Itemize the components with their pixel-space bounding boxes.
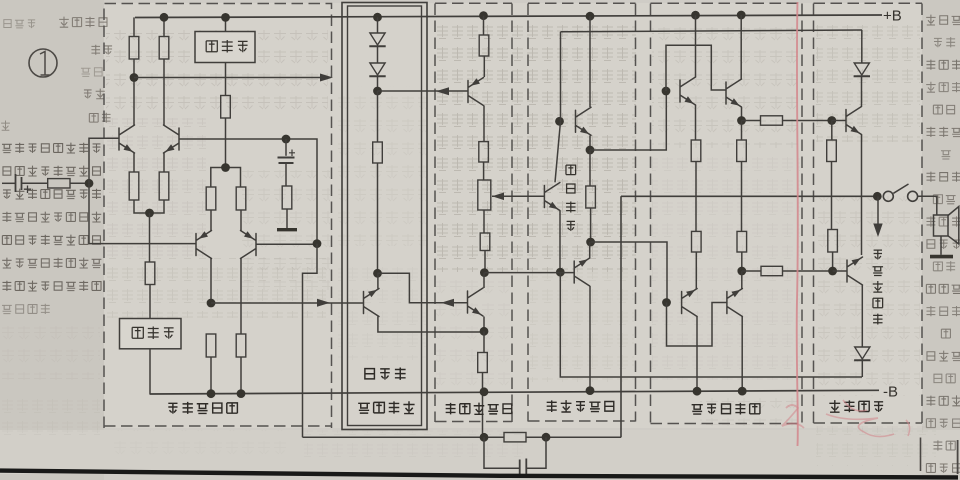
wire Q6p collector to -B: [741, 317, 743, 392]
wire feedback tap: [620, 196, 622, 437]
node input split: [85, 179, 94, 188]
red annotation line: [797, 2, 798, 446]
transistor Q5 (driver upper): [680, 77, 696, 105]
resistor R10 (Q3 collector load): [206, 334, 216, 357]
ground (bypass branch): [277, 228, 297, 231]
wire D2 to node: [377, 77, 379, 92]
wire node to Q6p emitter: [741, 271, 743, 289]
label: overcurrent protection: [829, 400, 883, 412]
wire Q5 emitter to R19: [695, 105, 697, 140]
wire Q8 collector to D3: [861, 77, 863, 107]
transistor Q8 (protection upper): [846, 107, 862, 135]
stage box: power output stage (dashed): [651, 3, 803, 422]
transistor Q6p (output lower): [727, 289, 743, 317]
wire rail to R14: [483, 16, 485, 35]
label: constant voltage bias (vertical): [566, 165, 576, 231]
wire rail to top current source: [225, 17, 227, 31]
margin text row: [89, 113, 110, 123]
wire switch to speaker: [918, 196, 937, 215]
wire to R24: [742, 270, 761, 272]
margin text row: [84, 89, 105, 99]
margin text row: [933, 440, 955, 450]
node T9 emitter: [373, 269, 382, 278]
resistor R24 (sense lower): [761, 266, 783, 275]
resistor R27: [828, 230, 838, 253]
wire R8 to Q3 emitter: [210, 210, 212, 231]
node rail Q6: [737, 11, 746, 20]
wire R2 to Q1 collector: [133, 59, 135, 125]
resistor R23 (sense upper): [761, 116, 783, 125]
transistor T12 (current amp upper): [576, 107, 592, 135]
label: boost circuit (line2): [358, 401, 414, 414]
speaker LS: [934, 215, 949, 236]
margin text row: [927, 351, 960, 362]
wire +B rail: [135, 15, 882, 18]
wire D3 to top bias line: [861, 30, 863, 63]
wire R14 to T10 emitter: [483, 56, 485, 77]
wire C3 right to node: [526, 437, 546, 468]
wire current source to R7: [225, 63, 227, 96]
label: voltage amplification stage: [446, 403, 512, 415]
wire current source to -B: [149, 349, 151, 394]
wire rail to Q6 collector: [740, 15, 742, 79]
margin text row: [926, 464, 960, 473]
wire rail to R2: [133, 17, 135, 36]
node rail VAS: [479, 11, 488, 20]
wire TB1 emitter down: [559, 211, 561, 273]
svg-text:+B: +B: [883, 8, 902, 25]
resistor R22: [737, 231, 747, 252]
transistor TB1 (bias upper): [544, 183, 560, 211]
node VAS midpoint: [480, 268, 489, 277]
node rail in boost box: [373, 13, 382, 22]
wire rail to R3: [163, 17, 165, 36]
resistor R21: [692, 231, 702, 252]
margin text row: [926, 172, 960, 182]
wire input: [2, 182, 15, 184]
margin text row: [3, 189, 101, 200]
arrowhead toward boost box (lower): [441, 299, 454, 307]
margin text row: [926, 306, 960, 316]
wire bias to T10 base: [378, 90, 468, 92]
node Q3 collector tap: [207, 299, 216, 308]
svg-text:-B: -B: [883, 384, 898, 401]
margin text row: [933, 105, 954, 114]
wire Q6 emitter: [741, 107, 743, 121]
label: single diff (line1): [365, 367, 406, 379]
node output: [873, 192, 882, 201]
node Q5p base: [662, 298, 671, 307]
wire Q2 base to feedback node: [179, 139, 317, 244]
resistor R6 (tail): [145, 262, 155, 285]
node rail-R3: [160, 13, 169, 22]
transistor T10 (VAS upper): [468, 78, 484, 106]
resistor R9 (Q4 emitter): [236, 187, 246, 210]
node TB2 -B: [586, 386, 595, 395]
resistor R25 (feedback): [504, 433, 526, 442]
margin text row: [2, 281, 101, 292]
wire tail to R6: [149, 213, 151, 262]
wire rail to T12 collector: [589, 16, 591, 107]
resistor R3 (Q2 collector load): [159, 37, 169, 60]
stage box: current amplification stage (dashed): [528, 3, 636, 421]
node Q6p emitter: [737, 267, 746, 276]
stage box: voltage amplification stage (dashed): [435, 3, 512, 422]
margin text row: [59, 17, 107, 28]
wire R11 to -B: [240, 357, 242, 394]
resistor R12 (bypass): [282, 186, 292, 209]
wire T9 node jog to T11 base: [378, 273, 468, 302]
transistor Q5p (driver lower): [682, 289, 698, 317]
diode D1: [370, 33, 385, 45]
label: speaker protection (vertical): [873, 250, 884, 324]
wire arrow stem: [877, 196, 879, 224]
wire emitter join: [134, 200, 164, 213]
wire TB2 collector up: [589, 242, 591, 258]
wire TB2 emitter to -B: [589, 286, 591, 391]
margin text row: [941, 151, 951, 159]
page rule (below figure, right): [957, 440, 959, 474]
figure number (1) circled: [29, 49, 57, 77]
node rail current-amp: [586, 12, 595, 21]
resistor R15: [479, 142, 489, 162]
wire node to R17: [483, 331, 485, 352]
wire to Q8 base bar: [832, 120, 846, 122]
wire C1 to R1: [22, 182, 48, 184]
page rule (below figure, left): [920, 438, 922, 472]
wire R9 to Q4 emitter: [240, 210, 242, 231]
resistor R17 (VAS lower load): [478, 353, 488, 373]
wire R20 to R22 (crosses output rail): [741, 162, 743, 232]
margin text row: [2, 143, 100, 154]
trimmer RP1 (bias adjust): [478, 180, 491, 210]
margin text row: [2, 304, 50, 314]
margin text row: [926, 419, 960, 428]
margin text row: [1, 121, 10, 131]
margin text row: [926, 15, 960, 26]
margin text row: [91, 45, 112, 55]
node T11 emitter: [480, 327, 489, 336]
wire base coupling lower: [667, 303, 727, 347]
wire C2 to R12: [285, 164, 287, 187]
node feedback right: [542, 433, 551, 442]
arrowhead trimmer wiper: [492, 193, 504, 201]
margin text row: [3, 166, 100, 177]
resistor R7 (pair B tail): [221, 96, 231, 119]
resistor R5 (Q2 emitter): [159, 172, 169, 200]
capacitor C2 (electrolytic bypass): [278, 158, 295, 164]
wire R21 to Q5p emitter: [695, 252, 697, 289]
wire R26 down (crosses output rail): [831, 162, 833, 230]
wire T11 emitter down: [483, 317, 485, 332]
switch S1: [883, 191, 893, 201]
transistor TB2 (bias lower): [574, 258, 590, 286]
node rail Q5: [691, 11, 700, 20]
margin text row: [2, 258, 101, 269]
wire R27 to node: [832, 252, 834, 271]
wire rail to Q5 collector: [695, 15, 697, 77]
resistor R11 (Q4 collector load): [236, 334, 246, 357]
wire R22 to node: [741, 252, 743, 271]
wire node to TB1 collector: [555, 121, 561, 182]
diode D3 (upper clamp): [854, 63, 869, 75]
arrowhead toward boost box (upper): [436, 87, 449, 95]
node R11 -B: [237, 389, 246, 398]
capacitor C1 (input, polarized): [16, 174, 22, 192]
wire protection sense line: [560, 272, 862, 377]
wire rail to D1: [377, 17, 379, 32]
wire R19 to R21 (crosses output rail): [695, 162, 697, 232]
wire signal to boost box: [134, 77, 320, 79]
margin text row: [2, 235, 100, 246]
resistor R13 (boost): [373, 142, 383, 163]
label: power output stage: [692, 403, 760, 415]
wire node to R13: [377, 91, 379, 142]
wire to Q9 base bar: [833, 270, 847, 272]
node bias join: [556, 268, 565, 277]
background bleed text (figure interior): [106, 30, 328, 114]
node pair B tail: [221, 163, 230, 172]
wire to Q5 base: [590, 91, 666, 150]
wire to Q3 base: [89, 183, 196, 243]
node mid bias: [586, 238, 595, 247]
margin text row: [926, 60, 960, 70]
label: differential input stage: [168, 402, 237, 414]
label: constant current source (bottom box): [132, 326, 173, 339]
wire signal to boost transistor base: [211, 302, 364, 304]
node pair A tail: [145, 209, 154, 218]
margin text row: [926, 216, 960, 226]
wire R1 to node: [70, 182, 89, 184]
margin text row: [926, 82, 960, 93]
node R10 -B: [207, 389, 216, 398]
node feedback join: [313, 239, 322, 248]
wire Q6 emitter to R20: [741, 121, 743, 141]
wire Q9 emitter to D4: [861, 285, 863, 347]
wire R15 to RP1: [483, 162, 485, 180]
wire to Q7p base: [591, 242, 667, 301]
wire VAS mid to TB2 base: [484, 272, 574, 274]
wire -B rail: [150, 390, 880, 394]
wire node to R26: [831, 121, 833, 141]
wire speaker to ground: [940, 236, 942, 255]
node Q8 base: [827, 116, 836, 125]
margin text row: [926, 395, 960, 406]
wire D4 to sense line: [861, 361, 863, 378]
wire R24 to Q9 base node: [783, 270, 833, 272]
margin text row: [81, 68, 102, 77]
wire Q2 emitter: [163, 153, 165, 172]
box U1: single-diff boost circuit (double border): [342, 3, 427, 430]
node Q6 emitter: [737, 116, 746, 125]
node Q6p -B: [738, 387, 747, 396]
wire T12 emitter down: [589, 136, 591, 151]
constant current source box (top): [195, 32, 255, 63]
margin text row: [933, 261, 955, 271]
wire R16 to VAS mid node: [484, 251, 486, 273]
margin text row: [941, 329, 950, 338]
node Q5 base: [662, 87, 671, 96]
resistor R1 (input series): [48, 179, 70, 188]
transistor Q6 (output upper): [726, 79, 742, 107]
wire to R23: [742, 120, 761, 122]
node feedback left: [480, 433, 489, 442]
margin text row: [2, 212, 101, 223]
wire R23 to Q8 base node: [783, 120, 832, 122]
capacitor C3 (feedback): [520, 459, 527, 476]
wire R13 to T9 node: [377, 163, 379, 273]
red scribbles near protection label: [782, 400, 910, 437]
transistor Q1 (input pair A left): [119, 125, 135, 153]
wire T11 collector up: [483, 273, 485, 288]
wire feedback bottom left: [303, 436, 505, 438]
wire RP1 to R16: [483, 210, 485, 233]
resistor R2 (Q1 collector load): [129, 37, 139, 60]
wire T9 collector to T11 emitter node: [378, 317, 484, 333]
stage box: differential input stage (dashed): [104, 4, 332, 429]
transistor Q3 (input pair B left): [196, 231, 212, 259]
resistor R18: [586, 186, 596, 208]
wire D1 to D2: [377, 47, 379, 63]
margin text row: [933, 195, 955, 204]
wire R12 to ground: [286, 209, 288, 228]
wire T10 collector down: [483, 106, 485, 142]
wire Q4 collector: [240, 259, 242, 335]
wire to Q1 base: [89, 138, 119, 183]
wire to C3 left: [484, 437, 519, 468]
margin text row: [926, 127, 960, 137]
wire RP1 wiper to TB1 base: [492, 195, 544, 197]
margin text row: [927, 240, 960, 249]
wire T9 emitter up: [377, 273, 379, 288]
node diode bias tap: [373, 87, 382, 96]
resistor R8 (Q3 emitter): [206, 187, 216, 210]
node R17 -B: [480, 387, 489, 396]
resistor R19: [691, 140, 701, 162]
diode D4 (lower clamp): [855, 347, 870, 359]
resistor R4 (Q1 emitter): [129, 172, 139, 200]
wire R7 to tail join: [225, 118, 227, 168]
wire R17 through -B to feedback: [482, 373, 484, 438]
node T12 base: [555, 117, 564, 126]
resistor R16: [480, 233, 490, 251]
constant current source box (bottom): [120, 319, 182, 349]
wire feedback bottom right: [526, 436, 621, 438]
arrowhead into boost box: [317, 299, 330, 307]
resistor R26: [827, 140, 837, 162]
label: current amplification stage: [547, 400, 614, 412]
margin text row: [926, 284, 960, 293]
wire base coupling upper: [666, 45, 726, 91]
wire R18 to node: [590, 208, 592, 242]
wire R3 to Q2 collector: [163, 59, 165, 125]
transistor T11 (VAS lower): [468, 288, 484, 316]
node bypass tap: [282, 135, 291, 144]
resistor R14 (T10 emitter): [479, 35, 489, 56]
label: constant current source (top box): [206, 40, 247, 53]
wire output rail: [621, 195, 877, 197]
wire feedback drop: [303, 244, 318, 438]
wire Q1 emitter: [133, 153, 135, 172]
stage box: overcurrent protection (dashed): [814, 3, 923, 423]
transistor Q4 (input pair B right): [241, 231, 257, 259]
label + (C1 polarity): [24, 186, 31, 194]
wire pair B emitter join: [211, 168, 241, 188]
wire bias column upper: [560, 32, 562, 122]
margin text row: [934, 374, 955, 383]
node Q1 collector tap: [130, 73, 139, 82]
bottom rule bar: [0, 471, 958, 478]
node rail-current source: [221, 13, 230, 22]
ground (speaker): [930, 255, 953, 259]
wire node to R18: [589, 150, 591, 186]
arrowhead to boost box: [320, 74, 333, 82]
resistor R20: [737, 140, 747, 162]
node Q9 base: [828, 267, 837, 276]
wire Q3 collector: [210, 259, 212, 304]
wire Q5p collector to -B: [696, 317, 698, 392]
wire Q4 base to node: [256, 243, 317, 245]
margin text row: [4, 20, 35, 28]
transistor Q2 (input pair A right): [164, 125, 180, 153]
margin text row: [934, 37, 955, 47]
wire top bias line: [561, 30, 863, 32]
wire R10 to -B: [210, 357, 212, 394]
node T12 emitter: [586, 146, 595, 155]
transistor Q9 (protection lower): [847, 257, 863, 285]
diode D2: [370, 63, 385, 75]
wire to C2: [285, 139, 287, 156]
node Q5p -B: [693, 387, 702, 396]
wire Q8 emitter down (crosses output rail): [861, 135, 863, 256]
transistor T9 (boost): [364, 289, 380, 317]
wire R6 to current source: [149, 285, 151, 319]
